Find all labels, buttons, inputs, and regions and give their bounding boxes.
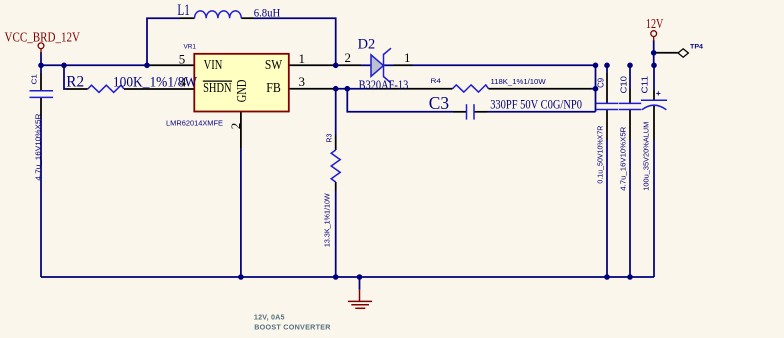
svg-text:2: 2 xyxy=(228,123,243,130)
svg-text:4.7u_16V10%X5R: 4.7u_16V10%X5R xyxy=(33,113,42,181)
svg-text:0.1u_50V10%X7R: 0.1u_50V10%X7R xyxy=(595,125,604,183)
svg-text:100u_35V20%ALUM: 100u_35V20%ALUM xyxy=(641,122,650,191)
svg-text:C1: C1 xyxy=(30,74,39,85)
svg-text:2: 2 xyxy=(345,50,352,65)
svg-text:SHDN: SHDN xyxy=(203,80,232,95)
svg-text:5: 5 xyxy=(179,52,186,67)
svg-text:4: 4 xyxy=(180,74,187,89)
svg-text:6.8uH: 6.8uH xyxy=(254,8,281,20)
svg-text:12V: 12V xyxy=(646,16,664,31)
svg-text:VIN: VIN xyxy=(204,57,223,72)
svg-text:3: 3 xyxy=(299,74,306,89)
svg-text:C3: C3 xyxy=(429,93,450,113)
svg-text:4.7u_16V10%X5R: 4.7u_16V10%X5R xyxy=(618,126,627,191)
svg-text:D2: D2 xyxy=(358,36,376,53)
svg-text:R4: R4 xyxy=(431,78,442,85)
svg-text:VCC_BRD_12V: VCC_BRD_12V xyxy=(5,29,81,44)
svg-text:R3: R3 xyxy=(325,134,334,143)
svg-text:L1: L1 xyxy=(177,2,189,19)
svg-text:13.3K_1%1/10W: 13.3K_1%1/10W xyxy=(322,193,331,247)
svg-text:C9: C9 xyxy=(596,77,605,88)
svg-text:330PF 50V C0G/NP0: 330PF 50V C0G/NP0 xyxy=(490,98,582,112)
svg-text:1: 1 xyxy=(404,50,411,65)
svg-text:SW: SW xyxy=(265,57,283,72)
svg-text:FB: FB xyxy=(266,80,281,95)
svg-text:GND: GND xyxy=(234,79,249,102)
svg-text:B320AF-13: B320AF-13 xyxy=(359,78,409,92)
svg-text:BOOST CONVERTER: BOOST CONVERTER xyxy=(254,323,331,332)
svg-text:TP4: TP4 xyxy=(690,44,703,51)
svg-text:C11: C11 xyxy=(640,75,649,93)
svg-text:LMR62014XMFE: LMR62014XMFE xyxy=(166,118,223,127)
svg-text:12V, 0A5: 12V, 0A5 xyxy=(254,313,285,322)
svg-text:R2: R2 xyxy=(66,74,84,91)
svg-text:C10: C10 xyxy=(619,75,628,93)
svg-text:1: 1 xyxy=(299,51,306,66)
svg-text:118K_1%1/10W: 118K_1%1/10W xyxy=(491,77,546,86)
svg-text:VR1: VR1 xyxy=(184,44,197,51)
